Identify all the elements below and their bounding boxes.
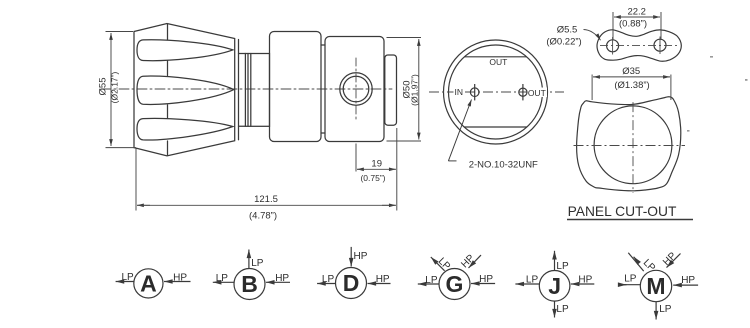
svg-text:HP: HP: [681, 275, 695, 286]
svg-text:HP: HP: [479, 274, 493, 285]
svg-text:(Ø2.17”): (Ø2.17”): [110, 72, 120, 104]
svg-text:LP: LP: [251, 258, 264, 269]
svg-text:G: G: [446, 271, 464, 297]
svg-text:IN: IN: [455, 87, 464, 97]
svg-text:LP: LP: [526, 275, 539, 286]
svg-text:LP: LP: [122, 272, 135, 283]
svg-text:(Ø1.38”): (Ø1.38”): [614, 80, 649, 91]
svg-text:LP: LP: [556, 261, 569, 272]
svg-text:HP: HP: [459, 253, 477, 271]
svg-text:D: D: [343, 270, 360, 296]
svg-text:B: B: [241, 271, 258, 297]
svg-text:OUT: OUT: [528, 88, 546, 98]
svg-text:(0.88”): (0.88”): [619, 19, 647, 30]
svg-text:HP: HP: [661, 250, 679, 268]
svg-text:HP: HP: [173, 273, 187, 284]
svg-text:(Ø1.97”): (Ø1.97”): [410, 74, 420, 106]
svg-text:LP: LP: [425, 275, 438, 286]
svg-text:(Ø0.22”): (Ø0.22”): [546, 37, 581, 48]
svg-text:HP: HP: [578, 275, 592, 286]
svg-text:121.5: 121.5: [254, 194, 278, 205]
svg-text:PANEL CUT-OUT: PANEL CUT-OUT: [568, 204, 677, 219]
svg-text:LP: LP: [556, 304, 569, 315]
svg-text:LP: LP: [641, 257, 658, 274]
svg-text:2-NO.10-32UNF: 2-NO.10-32UNF: [469, 160, 538, 171]
svg-text:LP: LP: [624, 274, 637, 285]
svg-text:Ø5.5: Ø5.5: [557, 25, 578, 36]
svg-text:(0.75”): (0.75”): [360, 173, 385, 183]
svg-text:LP: LP: [322, 274, 335, 285]
svg-text:22.2: 22.2: [627, 7, 646, 18]
svg-text:LP: LP: [659, 304, 672, 315]
svg-text:Ø35: Ø35: [622, 66, 640, 77]
svg-text:A: A: [140, 271, 157, 297]
svg-text:LP: LP: [216, 273, 229, 284]
svg-text:19: 19: [371, 158, 382, 169]
svg-text:Ø55: Ø55: [98, 78, 109, 96]
svg-text:(4.78”): (4.78”): [249, 211, 277, 222]
svg-text:J: J: [548, 273, 561, 299]
svg-text:HP: HP: [275, 273, 289, 284]
svg-text:HP: HP: [376, 274, 390, 285]
svg-text:HP: HP: [354, 251, 368, 262]
svg-text:M: M: [646, 273, 665, 299]
svg-text:OUT: OUT: [489, 57, 507, 67]
